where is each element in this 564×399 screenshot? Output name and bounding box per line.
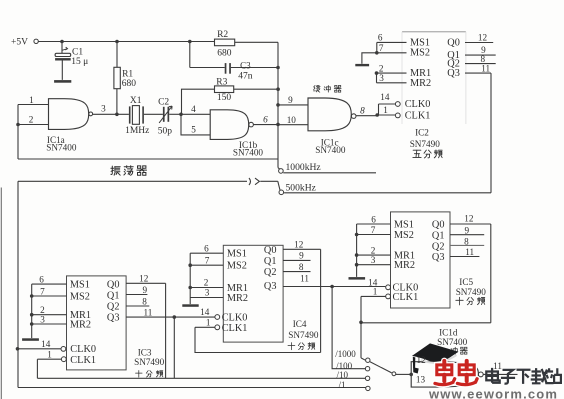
wire switch pole to IC1d (396, 373, 411, 375)
IC5 box (391, 212, 451, 308)
junction IC4 MS2 (188, 263, 192, 267)
IC4 box (223, 245, 283, 342)
ground IC3 (22, 338, 39, 341)
wire IC3 Q0 (pin12) (126, 282, 166, 284)
label divide-by-10 (IC5) (456, 297, 464, 305)
svg-text:6: 6 (204, 244, 209, 254)
scan artifact left edge (1, 188, 2, 399)
svg-text:7: 7 (205, 255, 210, 265)
wire IC3 MR2 (32, 323, 67, 325)
junction IC5 MS2 (355, 233, 359, 237)
junction R2-C3 branch/rail (188, 40, 192, 44)
svg-text:SN7490: SN7490 (410, 139, 441, 149)
watermark bug character 1 (441, 361, 448, 369)
svg-text:3: 3 (379, 73, 384, 83)
svg-text:MR2: MR2 (227, 293, 248, 304)
svg-text:9: 9 (288, 95, 293, 105)
wire IC1b output (254, 124, 279, 126)
svg-text:CLK1: CLK1 (70, 355, 96, 366)
switch contact /10 (365, 376, 369, 380)
ground IC4 (182, 304, 198, 307)
svg-text:/1000: /1000 (335, 349, 356, 359)
svg-text:1: 1 (206, 317, 211, 327)
junction R3/bus (276, 87, 280, 91)
capacitor C1 (55, 53, 71, 56)
svg-text:MS2: MS2 (70, 291, 90, 302)
svg-text:7: 7 (371, 225, 376, 235)
svg-text:680: 680 (122, 79, 137, 89)
junction IC2 MR1 tie (375, 71, 379, 75)
watermark text zi (501, 370, 515, 384)
svg-text:MS1: MS1 (394, 220, 414, 231)
svg-text:Q2: Q2 (264, 267, 277, 278)
svg-text:SN7490: SN7490 (134, 357, 165, 367)
svg-text:9: 9 (143, 285, 148, 295)
wire IC1c input 9 (278, 104, 308, 106)
svg-text:MR2: MR2 (70, 320, 91, 331)
watermark text xia (517, 370, 531, 384)
junction IC2 MS2/ground (375, 51, 379, 55)
wire R1 top stem (116, 42, 118, 68)
junction IC4 MR1 (188, 286, 192, 290)
wire IC4 Q0 vertical (320, 249, 322, 352)
svg-text:Q1: Q1 (107, 291, 120, 302)
IC3 CLK0 bubble (61, 347, 66, 352)
wire 500kHz line (284, 192, 491, 194)
switch contact /1 (366, 386, 370, 390)
wire IC2 MS2 (377, 52, 407, 54)
wire IC5 MS1 (357, 223, 391, 225)
wire IC5 MS2 (357, 234, 391, 236)
wire IC5 Q2 (pin8) (450, 244, 484, 246)
label divide-by-10 (IC4) (288, 343, 295, 350)
svg-text:11: 11 (493, 361, 502, 371)
svg-text:12: 12 (464, 214, 474, 224)
svg-text:SN7400: SN7400 (46, 143, 77, 153)
svg-text:Q3: Q3 (432, 252, 445, 263)
svg-text:1: 1 (383, 105, 388, 115)
wire left feedback vertical (17, 105, 19, 160)
wire IC2 MS1 (377, 41, 407, 43)
wire X1 to C2 (144, 113, 163, 115)
wire IC1b input 4 (181, 113, 210, 115)
junction IC3 MR1 (30, 313, 34, 317)
switch contact /1000 (366, 358, 370, 362)
svg-text:1: 1 (29, 95, 34, 105)
wire IC4 CLK1 feedback (195, 327, 321, 352)
wire 500kHz left segment (18, 180, 247, 182)
svg-text:Q3: Q3 (107, 313, 120, 324)
wire IC2 MR bracket (376, 73, 378, 83)
svg-text:12: 12 (478, 32, 488, 42)
junction C1/rail (60, 40, 64, 44)
svg-text:47n: 47n (238, 71, 253, 81)
svg-text:Q2: Q2 (107, 301, 120, 312)
wire 500kHz break symbol (249, 178, 278, 185)
svg-text:6: 6 (263, 114, 268, 124)
junction IC2 CLK tie (375, 113, 379, 117)
svg-text:IC5: IC5 (459, 277, 473, 287)
wire feedback bottom (18, 158, 278, 160)
svg-text:12: 12 (417, 355, 427, 365)
wire IC1c input 10 (278, 124, 308, 126)
node 500kHz terminal (279, 190, 284, 195)
wire IC3 CLK1 lead (37, 358, 61, 360)
wire IC1a input 2 (18, 124, 49, 126)
wire IC1d output (483, 373, 517, 375)
wire R3 right (234, 88, 278, 90)
junction IC3 MR2 (30, 322, 34, 326)
label divide-by-5 (IC2) (413, 150, 421, 157)
IC4 CLK1 bubble (215, 325, 220, 330)
wire +5V rail right of R2 (235, 41, 278, 43)
svg-text:1: 1 (373, 287, 378, 297)
svg-text:4: 4 (191, 104, 196, 114)
wire IC2 Q2 (pin8) (465, 63, 496, 65)
wire IC5 MR2 (357, 264, 391, 266)
svg-text:8: 8 (464, 236, 469, 246)
wire R3 left bend (182, 89, 215, 114)
label buffer (IC1d) (451, 347, 458, 354)
ground C1 (54, 80, 71, 83)
svg-text:R2: R2 (217, 30, 228, 40)
svg-text:C2: C2 (158, 97, 169, 107)
IC2 CLK0 bubble (395, 102, 400, 107)
switch contact /100 (365, 367, 369, 371)
wire IC5 Q0 vertical (490, 224, 492, 323)
junction C3/bus (276, 66, 280, 70)
svg-text:CLK1: CLK1 (393, 292, 419, 303)
svg-text:MS2: MS2 (410, 48, 430, 59)
wire IC4 CLK1 lead (195, 326, 215, 328)
wire C3 right (231, 67, 278, 69)
junction IC5 MR2 (355, 263, 359, 267)
wire +5V rail (39, 41, 215, 43)
svg-text:14: 14 (41, 339, 51, 349)
ground IC2 (355, 64, 369, 66)
wire IC3 CLK1 feedback (36, 359, 38, 378)
node 1000kHz terminal (279, 169, 284, 174)
svg-text:CLK0: CLK0 (405, 99, 431, 110)
svg-text:12: 12 (139, 274, 149, 284)
svg-text:3: 3 (40, 314, 45, 324)
wire 500kHz bend to terminal (278, 181, 280, 190)
wire IC5 MR1 (357, 254, 391, 256)
watermark graduation cap (412, 343, 459, 365)
wire IC2 CLK bracket (378, 104, 380, 115)
wire IC2 CLK1 lead (377, 114, 395, 116)
svg-text:C3: C3 (240, 61, 251, 71)
label divide-by-10 (IC3) (136, 370, 143, 377)
svg-text:3: 3 (371, 255, 376, 265)
svg-text:+5V: +5V (11, 38, 28, 48)
svg-text:8: 8 (299, 262, 304, 272)
svg-text:X1: X1 (130, 96, 142, 106)
resistor R2 (215, 39, 235, 46)
svg-text:14: 14 (200, 307, 210, 317)
svg-text:12: 12 (294, 239, 304, 249)
wire IC2 Q1 (pin9) (465, 54, 496, 56)
wire /10 tap vertical (173, 317, 175, 378)
svg-text:3: 3 (205, 288, 210, 298)
wire R2/C3 branch drop (189, 42, 191, 68)
svg-text:MS1: MS1 (227, 249, 247, 260)
wire IC4 MS/MR stem (189, 253, 191, 304)
junction IC1d inputs (409, 373, 413, 377)
svg-text:Q2: Q2 (432, 241, 445, 252)
svg-text:Q1: Q1 (264, 256, 277, 267)
svg-text:8: 8 (360, 105, 365, 115)
wire IC4 MS1 (190, 252, 223, 254)
svg-text:9: 9 (299, 251, 304, 261)
wire IC3 MS/MR stem (31, 284, 33, 338)
wire IC4 MR1 (190, 287, 223, 289)
wire IC1a output (93, 113, 129, 115)
svg-text:IC4: IC4 (293, 319, 307, 329)
svg-text:SN7490: SN7490 (456, 287, 487, 297)
svg-text:6: 6 (39, 275, 44, 285)
wire IC5 CLK1 feedback (360, 296, 362, 358)
svg-text:www.eeworm.com: www.eeworm.com (428, 387, 558, 399)
junction node 4 (179, 113, 183, 117)
watermark text zhan (545, 368, 561, 383)
svg-text:CLK0: CLK0 (70, 344, 96, 355)
svg-text:1MHz: 1MHz (125, 126, 149, 136)
junction input2/feedback (16, 123, 20, 127)
junction IC3 Q3 tap (173, 315, 177, 319)
junction R1/rail (115, 40, 119, 44)
wire /10 bus (37, 377, 365, 379)
wire left bus vertical (17, 181, 19, 387)
svg-text:11: 11 (465, 247, 474, 257)
wire IC2 Q3 (pin11) (465, 72, 491, 74)
wire C2 to node4 (169, 113, 181, 115)
wire 1000kHz line (283, 172, 376, 174)
wire IC5 Q1 (pin9) (450, 234, 484, 236)
wire IC5 MS/MR stem (356, 224, 358, 277)
svg-text:1000kHz: 1000kHz (286, 162, 321, 173)
resistor R1 (114, 67, 120, 88)
svg-text:5: 5 (191, 125, 196, 135)
IC2 faint box (402, 31, 466, 33)
svg-text:Q1: Q1 (432, 231, 445, 242)
svg-text:SN7400: SN7400 (315, 145, 346, 155)
wire /1000 hook (361, 358, 365, 360)
terminal +5V (34, 39, 38, 43)
svg-text:MS2: MS2 (394, 230, 414, 241)
IC5 CLK0 bubble (386, 285, 391, 290)
IC3 box (67, 276, 127, 370)
wire IC1c output (356, 115, 377, 117)
svg-text:MR2: MR2 (410, 78, 431, 89)
IC5 CLK1 bubble (386, 294, 391, 299)
IC4 CLK0 bubble (215, 315, 220, 320)
wire /1 bottom bus (18, 387, 366, 389)
svg-text:Q3: Q3 (447, 68, 460, 79)
wire IC1a input 1 (18, 104, 49, 106)
svg-text:Q0: Q0 (447, 37, 460, 48)
IC2 CLK1 bubble (395, 113, 400, 118)
junction R1/output node (115, 113, 119, 117)
capacitor C3 (225, 63, 227, 74)
NAND gate IC1d (411, 362, 478, 387)
NAND gate IC1b (210, 110, 249, 140)
svg-text:R1: R1 (122, 69, 133, 79)
svg-text:/10: /10 (337, 370, 349, 380)
wire IC2 Q3 vertical (490, 73, 492, 193)
svg-text:7: 7 (40, 286, 45, 296)
watermark text dian (486, 368, 499, 383)
svg-text:500kHz: 500kHz (286, 183, 316, 194)
wire feedback bus vertical (277, 42, 279, 167)
wire C1 bottom stem (61, 61, 63, 80)
svg-text:2: 2 (371, 246, 376, 256)
IC3 CLK1 bubble (61, 357, 66, 362)
wire IC4 MR2 (190, 297, 223, 299)
wire IC2 MS bracket (376, 42, 378, 52)
svg-text:Q0: Q0 (432, 220, 445, 231)
wire IC5 Q0 return (361, 322, 491, 324)
wire /100 tap vertical (332, 287, 365, 369)
wire IC3 MR1 (32, 314, 67, 316)
svg-text:R3: R3 (216, 78, 227, 88)
svg-text:CLK1: CLK1 (405, 111, 431, 122)
wire IC5 Q0 (pin12) (450, 223, 491, 225)
NAND gate IC1c (308, 98, 351, 131)
wire IC4 MS2 (190, 264, 223, 266)
svg-text:Q0: Q0 (107, 280, 120, 291)
svg-text:10: 10 (287, 115, 297, 125)
svg-text:11: 11 (481, 63, 490, 73)
junction IC3 MS2 (30, 294, 34, 298)
wire IC1b input 5 drop (181, 114, 210, 135)
svg-text:11: 11 (300, 274, 309, 284)
svg-text:IC2: IC2 (415, 128, 429, 138)
svg-text:MS2: MS2 (227, 261, 247, 272)
svg-text:CLK0: CLK0 (222, 312, 248, 323)
svg-text:SN7400: SN7400 (437, 337, 468, 347)
crystal X1 (129, 106, 131, 123)
svg-text:SN7490: SN7490 (288, 330, 319, 340)
junction IC4 Q3 /100 tap (330, 285, 334, 289)
ground IC5 (349, 277, 366, 280)
junction IC5 /1000 tap (359, 321, 363, 325)
capacitor C2 (trimmer) (163, 107, 165, 122)
svg-text:11: 11 (144, 307, 153, 317)
label buffer (top) (313, 85, 320, 92)
svg-text:680: 680 (217, 49, 232, 59)
svg-text:8: 8 (142, 296, 147, 306)
wire IC3 Q0 vertical (165, 283, 167, 378)
wire R1 bottom stem (116, 89, 118, 115)
svg-text:50p: 50p (158, 126, 173, 136)
wire IC2 Q0 (pin12) (465, 42, 493, 44)
wire to C3 left (190, 67, 225, 69)
svg-text:15 μ: 15 μ (71, 57, 88, 67)
watermark text zai (531, 368, 548, 383)
svg-text:SN7400: SN7400 (233, 148, 264, 158)
wire IC4 Q3 (pin11) (283, 286, 385, 288)
wire IC2 MR2 (377, 82, 407, 84)
wire 1000kHz drop (278, 168, 280, 169)
watermark bug character 2 (463, 361, 470, 369)
wire IC3 CLK0 lead (18, 348, 61, 350)
wire C1 top stem (61, 42, 63, 54)
resistor R3 (215, 86, 234, 93)
wire IC2 CLK0 lead (379, 103, 396, 105)
wire IC4 Q1 (pin9) (283, 259, 310, 261)
wire IC2 ground branch (362, 53, 377, 64)
svg-text:9: 9 (465, 226, 470, 236)
svg-text:3: 3 (101, 103, 106, 113)
wire IC3 MS2 (32, 295, 67, 297)
svg-text:MS1: MS1 (410, 37, 430, 48)
wire IC3 MS1 (32, 283, 67, 285)
svg-text:14: 14 (380, 92, 390, 102)
svg-text:Q0: Q0 (264, 245, 277, 256)
svg-text:2: 2 (204, 278, 209, 288)
svg-text:150: 150 (217, 93, 232, 103)
junction IC3 CLK0 tap (16, 347, 20, 351)
svg-text:MR2: MR2 (394, 260, 415, 271)
junction IC5 MR1 (355, 253, 359, 257)
wire IC5 Q3 (pin11) (450, 256, 479, 258)
svg-text:CLK1: CLK1 (222, 323, 248, 334)
svg-text:13: 13 (416, 375, 426, 385)
svg-text:Q3: Q3 (264, 281, 277, 292)
svg-text:IC1d: IC1d (439, 327, 458, 337)
svg-text:/1: /1 (339, 380, 346, 390)
svg-text:2: 2 (29, 115, 34, 125)
wire IC3 Q2 (pin8) (126, 305, 149, 307)
svg-text:1: 1 (47, 349, 52, 359)
op-amp-style NAND gate IC1a (49, 99, 89, 130)
wire IC4 Q0 (pin12) (283, 248, 321, 250)
wire IC3 Q1 (pin9) (126, 294, 147, 296)
switch S1 arm (370, 362, 392, 373)
svg-text:2: 2 (379, 63, 384, 73)
switch S1 pole (392, 372, 396, 376)
svg-text:6: 6 (378, 33, 383, 43)
label oscillator (111, 166, 120, 175)
svg-text:7: 7 (379, 43, 384, 53)
wire IC5 CLK1 lead (361, 295, 386, 297)
wire IC3 Q3 (pin11) (126, 316, 215, 318)
svg-text:6: 6 (371, 214, 376, 224)
junction pin9/bus (276, 103, 280, 107)
junction pin6-pin10/bus (276, 123, 280, 127)
wire IC4 Q2 (pin8) (283, 271, 310, 273)
wire IC2 MR1 (377, 72, 407, 74)
svg-text:MS1: MS1 (70, 280, 90, 291)
